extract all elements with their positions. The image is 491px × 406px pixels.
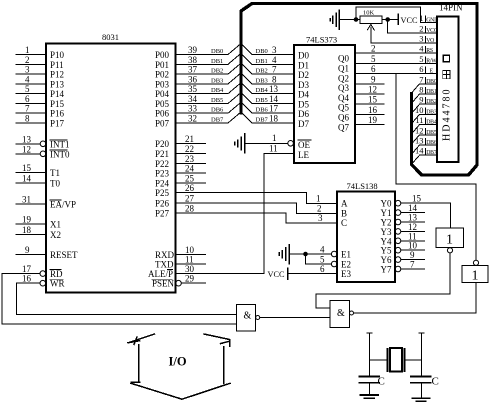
capacitor C2	[411, 376, 439, 388]
svg-text:DB4: DB4	[426, 120, 437, 126]
svg-text:P22: P22	[155, 159, 169, 169]
pin TXD (11)	[155, 255, 206, 270]
svg-text:DB7: DB7	[211, 117, 224, 124]
svg-text:D3: D3	[298, 80, 309, 90]
svg-text:Q0: Q0	[338, 54, 349, 64]
svg-text:10: 10	[185, 245, 195, 255]
svg-text:10: 10	[415, 105, 424, 115]
svg-text:17: 17	[269, 104, 279, 114]
svg-text:P02: P02	[155, 70, 169, 80]
svg-text:X2: X2	[50, 230, 61, 240]
svg-text:28: 28	[185, 204, 195, 214]
svg-text:4: 4	[320, 245, 325, 255]
373 pin D5 (14) net DB5	[256, 94, 310, 110]
LCD pin 13 DB6 bus tap	[411, 136, 437, 155]
svg-text:C: C	[341, 218, 347, 228]
pin RESET (9)	[16, 245, 78, 260]
wire inverter1 out to AND2 upper input	[316, 253, 450, 308]
svg-text:LE: LE	[298, 150, 309, 160]
svg-text:8: 8	[419, 85, 423, 95]
AND gate 1 (RD/WR)	[237, 305, 260, 332]
svg-text:I/O: I/O	[169, 355, 187, 369]
svg-text:E2: E2	[341, 260, 351, 270]
svg-text:D6: D6	[298, 109, 309, 119]
pin P12 (3)	[16, 65, 64, 80]
pin P03 (36) net DB3	[155, 74, 228, 89]
svg-text:1: 1	[446, 233, 453, 248]
svg-text:13: 13	[415, 136, 424, 146]
svg-text:24: 24	[185, 164, 195, 174]
LCD pin 3 VO	[419, 34, 434, 45]
svg-text:Q3: Q3	[338, 83, 349, 93]
svg-text:34: 34	[188, 94, 198, 104]
svg-text:&: &	[337, 308, 345, 319]
bus tap chevron DB3	[228, 73, 294, 84]
svg-text:P25: P25	[155, 188, 170, 198]
svg-text:RESET: RESET	[50, 250, 78, 260]
bus tap chevron DB5	[228, 93, 294, 104]
svg-text:DB5: DB5	[256, 97, 268, 104]
svg-text:D0: D0	[298, 51, 309, 61]
373 pin LE (11) wire to ALE	[264, 144, 309, 274]
pin P27 (28) wire to 138 C	[155, 204, 337, 223]
svg-text:16: 16	[368, 105, 378, 115]
pin INT0 (12)	[16, 144, 70, 159]
svg-text:T0: T0	[50, 179, 60, 189]
373 pin Q1 (5) wire to LCD R/W	[338, 54, 437, 74]
svg-text:7: 7	[410, 260, 415, 270]
svg-text:E1: E1	[341, 250, 351, 260]
svg-text:29: 29	[185, 274, 195, 284]
373 pin Q5 (15) stub	[338, 95, 384, 113]
svg-text:DB3: DB3	[426, 109, 437, 115]
svg-text:P05: P05	[155, 99, 170, 109]
svg-text:DB3: DB3	[211, 77, 223, 84]
svg-text:C: C	[378, 376, 385, 388]
svg-text:P21: P21	[155, 149, 169, 159]
ground at C2	[413, 398, 430, 401]
svg-text:21: 21	[185, 134, 194, 144]
svg-text:DB0: DB0	[256, 48, 268, 55]
138 pin Y5 (10) stub	[381, 241, 425, 256]
svg-text:6: 6	[371, 64, 376, 74]
svg-text:2: 2	[25, 55, 30, 65]
svg-text:P26: P26	[155, 199, 170, 209]
svg-text:35: 35	[188, 84, 198, 94]
svg-text:7: 7	[272, 65, 277, 75]
pin T0 (14)	[16, 174, 60, 189]
svg-text:5: 5	[371, 54, 376, 64]
pin RXD (10)	[155, 245, 206, 260]
svg-text:6: 6	[25, 94, 30, 104]
inverter 1 (from Y0)	[436, 228, 464, 253]
svg-text:P06: P06	[155, 109, 170, 119]
svg-text:15: 15	[22, 163, 32, 173]
svg-text:Q2: Q2	[338, 73, 349, 83]
373 pin Q3 (9) stub	[338, 74, 384, 93]
svg-text:18: 18	[22, 225, 32, 235]
svg-text:2: 2	[419, 23, 423, 33]
LCD pin 4 RS	[419, 44, 433, 55]
pin P22 (23)	[155, 154, 206, 169]
LCD pin 12 DB5 bus tap	[411, 125, 437, 144]
373 pin Q6 (16) stub	[338, 105, 384, 123]
svg-text:EA/VP: EA/VP	[50, 199, 76, 209]
LCD label square	[443, 55, 449, 62]
pot wiper arrow	[367, 25, 374, 44]
svg-text:DB5: DB5	[211, 97, 223, 104]
373 pin OE (1) wire from ground	[245, 133, 311, 150]
svg-text:&: &	[244, 311, 252, 322]
VCC symbol at pot	[398, 14, 418, 25]
svg-text:8: 8	[25, 114, 30, 124]
svg-text:1: 1	[316, 193, 321, 203]
138 pin Y3 (12) stub	[381, 222, 425, 237]
pin P04 (35) net DB4	[155, 84, 228, 99]
svg-text:P01: P01	[155, 60, 169, 70]
bus tap chevron DB4	[228, 83, 294, 94]
pin P06 (33) net DB6	[155, 104, 228, 119]
svg-text:B: B	[341, 208, 347, 218]
svg-text:31: 31	[22, 194, 31, 204]
svg-text:15: 15	[368, 95, 378, 105]
pin P10 (1)	[16, 45, 65, 60]
138 pin Y4 (11) stub	[381, 231, 425, 246]
svg-text:PSEN: PSEN	[152, 279, 175, 289]
svg-text:RD: RD	[50, 269, 63, 279]
svg-text:ALE/P: ALE/P	[148, 269, 173, 279]
svg-text:T1: T1	[50, 168, 60, 178]
svg-text:14: 14	[415, 146, 424, 156]
svg-text:10K: 10K	[363, 10, 375, 17]
svg-text:1: 1	[272, 133, 277, 143]
pin P23 (24)	[155, 164, 206, 179]
bus tap chevron DB1	[228, 53, 294, 64]
138 pin Y0 (15) wire to inverter1	[381, 194, 451, 228]
capacitor C1	[360, 376, 385, 388]
svg-text:3: 3	[318, 213, 323, 223]
svg-text:1: 1	[25, 45, 30, 55]
pin P15 (6)	[16, 94, 65, 109]
pin X1 (19)	[16, 214, 61, 229]
svg-text:D4: D4	[298, 90, 309, 100]
svg-text:Q6: Q6	[338, 113, 349, 123]
potentiometer RP 10K	[360, 10, 382, 24]
svg-text:2: 2	[371, 44, 376, 54]
ground for 373 OE	[235, 134, 245, 153]
svg-text:12: 12	[415, 125, 424, 135]
svg-text:6: 6	[419, 64, 423, 74]
junction pot left	[354, 18, 358, 22]
svg-text:9: 9	[25, 245, 30, 255]
svg-text:DB6: DB6	[211, 107, 224, 114]
bus tap chevron DB7	[228, 112, 294, 123]
pin X2 (18)	[16, 225, 61, 240]
svg-text:8: 8	[272, 74, 277, 84]
svg-text:DB2: DB2	[426, 99, 437, 105]
138 pin E1 (4) wire from ground	[289, 245, 351, 260]
pin P17 (8)	[16, 114, 65, 129]
svg-text:VCC: VCC	[268, 270, 286, 279]
svg-text:13: 13	[22, 134, 32, 144]
373 pin D6 (17) net DB6	[256, 104, 310, 120]
wire ground to pot	[339, 19, 360, 21]
svg-text:DB6: DB6	[426, 140, 437, 146]
pin P20 (21)	[155, 134, 206, 149]
ground at potentiometer	[330, 10, 339, 29]
pin P01 (38) net DB1	[155, 55, 228, 70]
373 pin D4 (13) net DB4	[256, 84, 310, 100]
svg-text:DB1: DB1	[211, 58, 223, 65]
svg-text:12: 12	[22, 144, 31, 154]
svg-text:22: 22	[185, 144, 194, 154]
138 pin Y7 (7) stub	[381, 260, 425, 275]
svg-text:Q7: Q7	[338, 122, 349, 132]
373 pin Q0 (2) wire to LCD RS	[338, 44, 437, 64]
ground for 138 enables	[279, 245, 289, 264]
svg-text:9: 9	[371, 74, 376, 84]
wire pot right to VCC	[382, 19, 398, 21]
svg-text:P27: P27	[155, 209, 170, 219]
373 pin Q4 (12) stub	[338, 85, 384, 103]
svg-text:P00: P00	[155, 50, 170, 60]
data bus thick outline	[241, 4, 477, 176]
svg-text:D7: D7	[298, 119, 309, 129]
svg-text:3: 3	[272, 45, 277, 55]
svg-text:HD44780: HD44780	[442, 88, 453, 141]
svg-text:D2: D2	[298, 70, 309, 80]
svg-text:1: 1	[472, 269, 479, 284]
svg-text:26: 26	[185, 183, 195, 193]
svg-text:DB6: DB6	[256, 107, 269, 114]
pin P11 (2)	[16, 55, 64, 70]
svg-text:DB1: DB1	[426, 89, 437, 95]
svg-text:5: 5	[419, 54, 423, 64]
LCD pin 9 DB2 bus tap	[411, 95, 437, 114]
svg-text:DB7: DB7	[256, 117, 269, 124]
AND gate 2	[330, 301, 354, 328]
svg-text:P07: P07	[155, 119, 170, 129]
svg-text:30: 30	[185, 264, 195, 274]
svg-text:74LS138: 74LS138	[347, 181, 378, 191]
pin P25 (26) wire to 138 A	[155, 183, 337, 204]
I/O expansion arrow	[128, 334, 230, 399]
pin P21 (22)	[155, 144, 206, 159]
svg-text:VO: VO	[426, 38, 434, 44]
svg-text:19: 19	[368, 115, 378, 125]
pin P05 (34) net DB5	[155, 94, 228, 109]
svg-text:13: 13	[269, 84, 279, 94]
svg-text:32: 32	[188, 114, 197, 124]
pin P00 (39) net DB0	[155, 45, 228, 60]
pin P02 (37) net DB2	[155, 65, 228, 80]
bus tap chevron DB0	[228, 44, 294, 55]
inverter 2 (from LCD E)	[462, 260, 488, 283]
svg-text:D1: D1	[298, 60, 309, 70]
pin INT1 (13)	[16, 134, 70, 149]
373 pin D3 (8) net DB3	[256, 74, 310, 90]
LCD pin 1 GND	[419, 13, 438, 24]
wire inverter2 out to AND2 output node	[354, 283, 477, 314]
svg-text:23: 23	[185, 154, 195, 164]
svg-text:12: 12	[368, 85, 377, 95]
svg-text:DB2: DB2	[256, 68, 268, 75]
svg-text:7: 7	[25, 104, 30, 114]
svg-text:DB4: DB4	[211, 87, 224, 94]
LCD pin 10 DB3 bus tap	[411, 105, 437, 124]
wire wiper to LCD pin3 VO	[371, 42, 437, 44]
svg-text:A: A	[341, 199, 348, 209]
svg-text:OE: OE	[298, 140, 310, 150]
svg-text:8031: 8031	[102, 32, 119, 42]
373 pin D2 (7) net DB2	[256, 65, 310, 81]
svg-text:VCC: VCC	[426, 28, 438, 34]
LCD pin 2 VCC	[419, 23, 438, 34]
svg-text:P10: P10	[50, 50, 65, 60]
svg-text:5: 5	[320, 255, 325, 265]
LCD pin 6 E wire to inverter2	[396, 64, 476, 260]
ground at C1	[361, 395, 379, 398]
svg-text:INT0: INT0	[50, 149, 70, 159]
svg-text:27: 27	[185, 194, 195, 204]
pin ALE/P (30) wire to LE	[148, 264, 264, 279]
MCU U1 8031 body	[46, 32, 176, 293]
svg-text:4: 4	[419, 44, 424, 54]
pin T1 (15)	[16, 163, 60, 178]
svg-text:Q1: Q1	[338, 64, 349, 74]
svg-text:P16: P16	[50, 109, 65, 119]
crystal Y1	[388, 348, 405, 372]
svg-text:VCC: VCC	[401, 16, 419, 25]
svg-text:16: 16	[22, 274, 32, 284]
373 pin D1 (4) net DB1	[256, 55, 310, 71]
wire pot right to LCD pin2 VCC	[388, 20, 437, 33]
VCC symbol at E3	[268, 268, 288, 279]
svg-text:18: 18	[269, 114, 279, 124]
svg-text:36: 36	[188, 74, 198, 84]
pin WR (16) wire to AND gate	[16, 274, 236, 315]
svg-text:DB0: DB0	[426, 79, 437, 85]
svg-text:11: 11	[415, 115, 423, 125]
svg-text:1: 1	[419, 13, 423, 23]
wire pot left to LCD pin1 GND	[356, 7, 421, 23]
pin PSEN (29)	[152, 274, 206, 289]
svg-text:33: 33	[188, 104, 198, 114]
svg-text:DB1: DB1	[256, 58, 268, 65]
svg-text:DB7: DB7	[426, 150, 437, 156]
pin P07 (32) net DB7	[155, 114, 228, 129]
pin P24 (25)	[155, 174, 206, 189]
svg-text:37: 37	[188, 65, 198, 75]
svg-text:3: 3	[419, 34, 423, 44]
svg-text:DB2: DB2	[211, 68, 223, 75]
svg-text:P20: P20	[155, 139, 170, 149]
373 pin Q7 (19) stub	[338, 115, 384, 132]
373 pin D7 (18) net DB7	[256, 114, 310, 130]
wire crystal right leg	[405, 333, 425, 376]
LCD pin 11 DB4 bus tap	[411, 115, 437, 134]
LCD connector J1 14PIN body	[437, 3, 463, 163]
LCD pin 5 R/W	[419, 54, 437, 65]
svg-text:INT1: INT1	[50, 139, 70, 149]
wire C2 to ground	[421, 383, 423, 398]
svg-text:D5: D5	[298, 100, 309, 110]
LCD pin 14 DB7 bus tap	[411, 146, 437, 165]
svg-text:4: 4	[272, 55, 277, 65]
svg-text:DB0: DB0	[211, 48, 223, 55]
svg-text:14: 14	[269, 94, 279, 104]
svg-text:E3: E3	[341, 269, 351, 279]
svg-text:WR: WR	[50, 279, 65, 289]
decoder U3 74LS138 body	[337, 181, 395, 282]
svg-text:GND: GND	[426, 18, 438, 24]
svg-text:DB3: DB3	[256, 77, 268, 84]
svg-text:P11: P11	[50, 60, 64, 70]
svg-text:14PIN: 14PIN	[439, 3, 463, 13]
svg-text:6: 6	[320, 264, 325, 274]
wire crystal left leg	[367, 333, 388, 376]
svg-text:Q4: Q4	[338, 93, 349, 103]
svg-text:P14: P14	[50, 89, 65, 99]
pin P13 (4)	[16, 74, 65, 89]
svg-text:DB4: DB4	[256, 87, 269, 94]
svg-text:P12: P12	[50, 70, 64, 80]
138 pin Y1 (14) stub	[381, 203, 425, 218]
LCD label glyph jie	[443, 71, 450, 79]
svg-text:Y7: Y7	[381, 265, 392, 275]
svg-text:17: 17	[22, 264, 32, 274]
svg-text:X1: X1	[50, 219, 61, 229]
svg-text:2: 2	[317, 203, 322, 213]
svg-text:14: 14	[22, 174, 32, 184]
svg-text:38: 38	[188, 55, 198, 65]
pin P26 (27) wire to 138 B	[155, 194, 337, 214]
138 pin Y2 (13) stub	[381, 213, 425, 228]
pin P14 (5)	[16, 84, 65, 99]
svg-text:P04: P04	[155, 89, 170, 99]
svg-text:Q5: Q5	[338, 103, 349, 113]
373 pin D0 (3) net DB0	[256, 45, 310, 61]
svg-text:P17: P17	[50, 119, 65, 129]
svg-text:P23: P23	[155, 169, 170, 179]
svg-text:9: 9	[419, 95, 423, 105]
pin EA/VP (31)	[16, 194, 76, 209]
svg-text:3: 3	[25, 65, 30, 75]
373 pin Q2 (6) wire to LCD E	[338, 64, 437, 83]
svg-text:19: 19	[22, 214, 32, 224]
svg-text:39: 39	[188, 45, 198, 55]
svg-text:7: 7	[419, 74, 423, 84]
LCD pin 8 DB1 bus tap	[411, 85, 437, 104]
svg-text:11: 11	[269, 144, 278, 154]
138 pin E3 (6) wire from VCC	[288, 264, 352, 279]
138 pin E2 (5)	[306, 254, 352, 270]
svg-text:4: 4	[25, 74, 30, 84]
svg-text:P15: P15	[50, 99, 65, 109]
junction pot right	[386, 18, 390, 22]
bus tap chevron DB2	[228, 63, 294, 74]
svg-text:DB5: DB5	[426, 130, 437, 136]
pin P16 (7)	[16, 104, 65, 119]
LCD pin 7 DB0 bus tap	[411, 74, 437, 93]
latch U2 74LS373 body	[294, 35, 355, 164]
svg-text:P13: P13	[50, 79, 65, 89]
svg-text:RXD: RXD	[155, 250, 175, 260]
wire AND1 out to AND2 lower input	[260, 317, 330, 319]
bus tap chevron DB6	[228, 102, 294, 113]
svg-text:C: C	[432, 376, 439, 388]
svg-text:74LS373: 74LS373	[306, 35, 337, 45]
